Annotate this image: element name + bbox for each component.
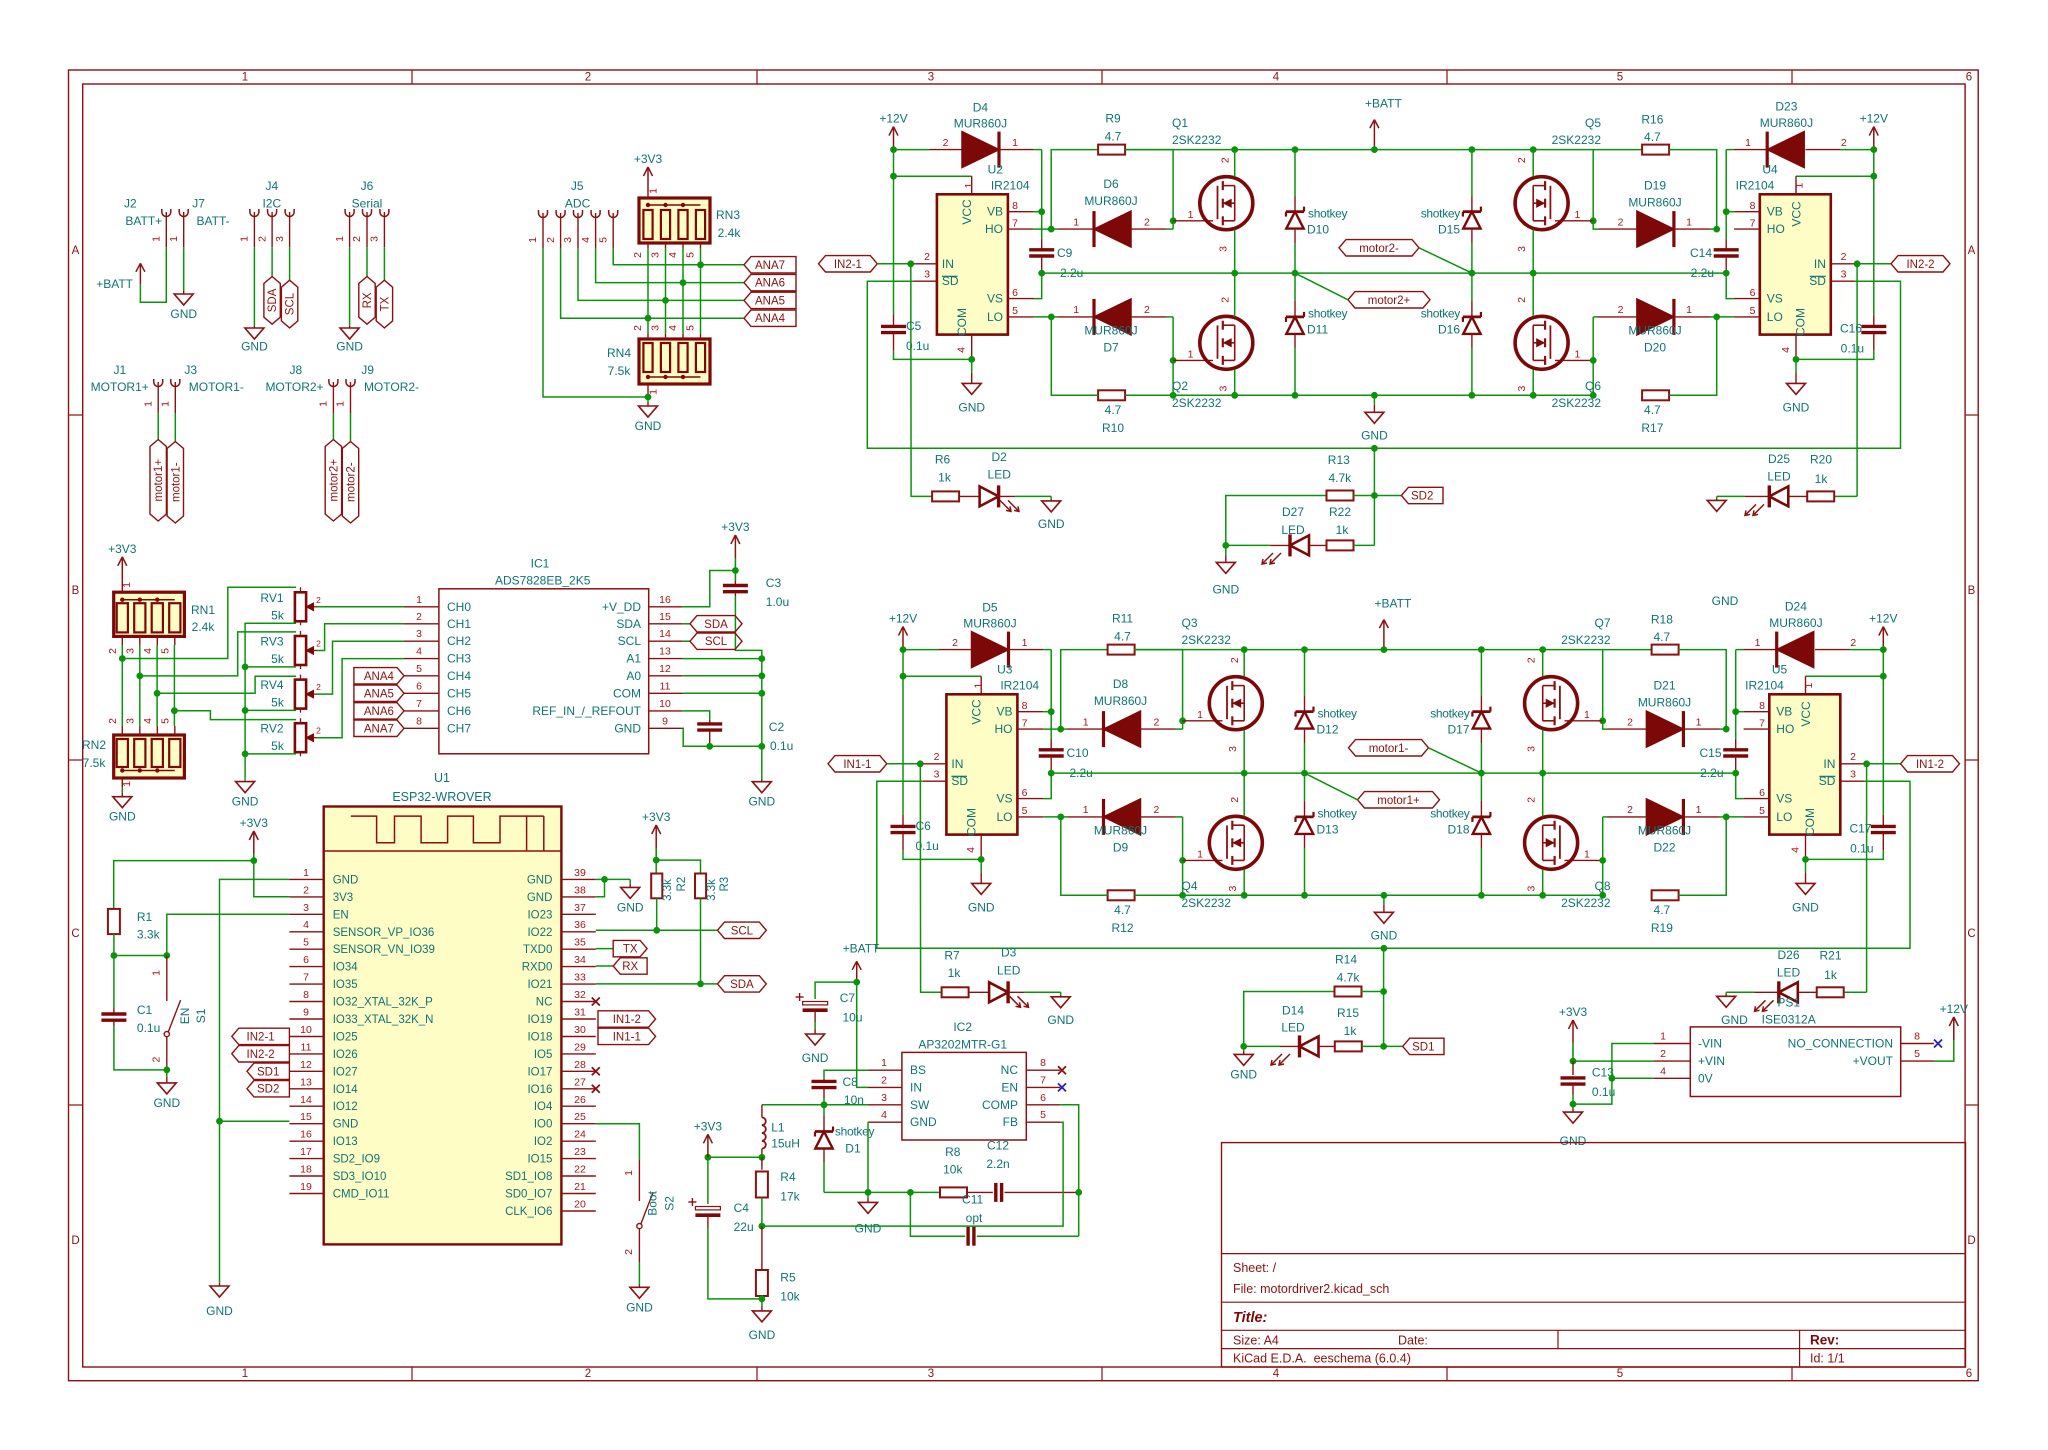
svg-text:5: 5: [1759, 805, 1765, 817]
svg-text:VB: VB: [996, 705, 1012, 719]
svg-text:R7: R7: [944, 948, 960, 962]
ground: [1717, 992, 1748, 1027]
svg-text:+12V: +12V: [889, 612, 917, 626]
svg-text:5: 5: [597, 237, 609, 243]
svg-text:17: 17: [300, 1146, 312, 1158]
wire: [1043, 711, 1051, 713]
wire: [157, 676, 296, 693]
svg-text:Title:: Title:: [1233, 1310, 1268, 1326]
no-connect x pin28: [592, 1067, 600, 1075]
svg-text:GND: GND: [749, 1328, 776, 1342]
junction: [1469, 270, 1476, 277]
wire: [1234, 230, 1236, 273]
svg-text:R22: R22: [1329, 505, 1351, 519]
wire: [1050, 650, 1052, 712]
svg-text:SD2: SD2: [1411, 491, 1433, 503]
svg-text:C2: C2: [769, 720, 785, 734]
switch S1: [151, 956, 209, 1070]
junction: [1599, 892, 1606, 899]
wire: [1134, 649, 1652, 651]
junction: [171, 707, 178, 714]
svg-text:2: 2: [632, 252, 644, 258]
wire: [254, 861, 290, 897]
label TX: [376, 280, 392, 328]
wire: [596, 983, 718, 985]
wire: [1373, 448, 1375, 545]
resistor R7: [920, 764, 968, 998]
connector J2 BATT+: [124, 197, 171, 248]
wire: [1735, 650, 1737, 712]
svg-text:TX: TX: [379, 296, 391, 311]
svg-text:J4: J4: [265, 179, 278, 193]
svg-text:GND: GND: [635, 419, 662, 433]
svg-text:+BATT: +BATT: [843, 942, 880, 956]
wire: [317, 659, 404, 738]
diode D24: [1736, 600, 1884, 668]
svg-text:3: 3: [928, 1368, 934, 1380]
wire: [1173, 394, 1593, 396]
svg-text:1: 1: [242, 72, 248, 84]
svg-text:1: 1: [303, 867, 309, 879]
svg-text:EN: EN: [1001, 1080, 1018, 1094]
label SD1: [247, 1063, 289, 1079]
svg-text:GND: GND: [1792, 900, 1819, 914]
junction: [154, 690, 161, 697]
junction: [1231, 270, 1238, 277]
ground: [1212, 545, 1239, 596]
wire: [1542, 773, 1544, 816]
svg-text:IO35: IO35: [333, 979, 358, 991]
svg-text:2: 2: [316, 595, 321, 605]
capacitor C16: [1796, 176, 1886, 359]
svg-text:2.4k: 2.4k: [718, 226, 742, 240]
junction: [1048, 314, 1055, 321]
wire: [683, 728, 762, 746]
svg-text:C7: C7: [840, 991, 856, 1005]
svg-text:Q4: Q4: [1182, 879, 1198, 893]
potentiometer RV4: [260, 675, 321, 713]
ground: [1560, 1104, 1587, 1148]
wire: [121, 645, 123, 726]
svg-text:1k: 1k: [938, 470, 952, 484]
svg-text:LO: LO: [987, 310, 1003, 324]
svg-text:18: 18: [300, 1164, 312, 1176]
resistor R12: [1108, 890, 1135, 935]
svg-text:2: 2: [316, 682, 321, 692]
capacitor C11: [910, 1192, 1078, 1245]
junction: [163, 952, 170, 959]
svg-text:14: 14: [659, 628, 671, 640]
svg-text:D3: D3: [1001, 946, 1017, 960]
junction: [1478, 892, 1485, 899]
wire: [1532, 150, 1534, 177]
svg-text:5: 5: [1040, 1109, 1046, 1121]
junction: [653, 857, 660, 864]
wire: [638, 1262, 640, 1282]
svg-text:2: 2: [1850, 751, 1856, 763]
svg-text:15: 15: [659, 611, 671, 623]
svg-text:2: 2: [316, 726, 321, 736]
transistor Q7: [1525, 616, 1611, 752]
power +BATT: [843, 942, 880, 983]
svg-text:S1: S1: [194, 1008, 208, 1023]
junction: [1478, 646, 1485, 653]
svg-text:IR2104: IR2104: [1736, 179, 1775, 193]
svg-text:2: 2: [545, 237, 557, 243]
wire: [332, 413, 334, 440]
svg-text:8: 8: [303, 989, 309, 1001]
junction: [758, 672, 765, 679]
svg-text:A: A: [72, 245, 80, 257]
diode D6: [1051, 177, 1173, 247]
svg-text:1: 1: [335, 401, 347, 407]
svg-text:IN2-2: IN2-2: [1906, 259, 1934, 271]
wire: [1384, 1045, 1403, 1047]
svg-text:12: 12: [300, 1059, 312, 1071]
transistor Q8: [1525, 797, 1611, 910]
potentiometer RV2: [260, 718, 321, 756]
svg-text:RN1: RN1: [191, 603, 215, 617]
svg-text:4.7: 4.7: [1114, 903, 1131, 917]
label SCL: [718, 922, 767, 938]
power +3V3: [108, 542, 137, 580]
svg-text:Q7: Q7: [1594, 616, 1610, 630]
switch S2 Boot: [623, 1160, 676, 1262]
svg-text:11: 11: [660, 680, 671, 692]
svg-text:D5: D5: [982, 600, 998, 614]
junction: [1057, 726, 1064, 733]
svg-text:0.1u: 0.1u: [137, 1021, 160, 1035]
svg-text:6: 6: [1966, 72, 1972, 84]
svg-text:2: 2: [1516, 157, 1528, 163]
junction: [111, 952, 118, 959]
svg-text:1: 1: [1696, 804, 1702, 816]
label IN2-1: [232, 1028, 290, 1044]
wire: [596, 948, 613, 950]
svg-text:ANA6: ANA6: [364, 706, 394, 718]
svg-text:C12: C12: [987, 1139, 1009, 1153]
svg-text:SD2_IO9: SD2_IO9: [333, 1154, 380, 1166]
wire: [1592, 317, 1594, 395]
svg-text:IO34: IO34: [333, 962, 359, 974]
svg-text:3.3k: 3.3k: [137, 927, 161, 941]
junction: [1292, 146, 1299, 153]
junction: [1793, 356, 1800, 363]
svg-text:6: 6: [303, 954, 309, 966]
wire: [1717, 316, 1734, 318]
connector J7 BATT-: [168, 197, 230, 248]
svg-text:1: 1: [1574, 209, 1580, 221]
svg-text:C8: C8: [843, 1075, 859, 1089]
no-connect x IC2 pin7: [1058, 1083, 1066, 1091]
junction: [163, 1067, 170, 1074]
label ANA4: [744, 310, 796, 326]
svg-text:GND: GND: [206, 1304, 233, 1318]
svg-text:39: 39: [574, 867, 586, 879]
svg-text:IN: IN: [942, 257, 954, 271]
wire: [877, 781, 1910, 948]
svg-text:ANA5: ANA5: [755, 295, 785, 307]
svg-text:4: 4: [1273, 1368, 1280, 1380]
wire: [1051, 150, 1098, 230]
svg-text:IO26: IO26: [333, 1049, 358, 1061]
wire: [1234, 273, 1236, 316]
svg-text:3: 3: [924, 269, 930, 281]
svg-text:16: 16: [300, 1129, 312, 1141]
wire: [183, 247, 185, 286]
wire: [605, 878, 631, 880]
wire: [1866, 764, 1868, 993]
svg-text:R2: R2: [676, 877, 688, 892]
wire: [1034, 211, 1042, 213]
svg-text:1k: 1k: [948, 966, 962, 980]
svg-text:1k: 1k: [1824, 968, 1838, 982]
svg-text:VB: VB: [1767, 205, 1783, 219]
svg-text:4: 4: [1273, 72, 1280, 84]
svg-text:VB: VB: [987, 205, 1003, 219]
wire: [596, 1124, 640, 1160]
capacitor C6: [891, 676, 982, 859]
wire: [877, 263, 913, 265]
svg-text:HO: HO: [985, 222, 1003, 236]
power +12V: [879, 112, 907, 150]
svg-text:6: 6: [1966, 1368, 1972, 1380]
svg-text:HO: HO: [1776, 722, 1794, 736]
wire: [1061, 650, 1108, 730]
capacitor C5: [881, 176, 972, 359]
no-connect x pin27: [592, 1085, 600, 1093]
diode D15 shotkey: [1463, 150, 1481, 274]
svg-text:IO22: IO22: [527, 927, 552, 939]
ground: [855, 1192, 882, 1235]
svg-text:ESP32-WROVER: ESP32-WROVER: [392, 790, 491, 804]
svg-text:CMD_IO11: CMD_IO11: [333, 1189, 390, 1201]
svg-text:4.7: 4.7: [1654, 903, 1671, 917]
svg-text:I2C: I2C: [262, 197, 281, 211]
svg-text:1k: 1k: [1344, 1024, 1358, 1038]
diode D19: [1593, 179, 1717, 247]
svg-text:Date:: Date:: [1398, 1334, 1428, 1348]
svg-text:2: 2: [632, 325, 644, 331]
wire: [1573, 1044, 1654, 1105]
svg-text:D: D: [71, 1235, 79, 1247]
svg-text:IN1-2: IN1-2: [613, 1014, 641, 1026]
capacitor C1: [101, 956, 160, 1036]
diode D1 shotkey: [815, 1105, 874, 1193]
ground: [1230, 1046, 1257, 1081]
U1 right pins: [505, 867, 596, 1218]
svg-text:1: 1: [1083, 804, 1089, 816]
power +3V3: [634, 152, 663, 190]
diode D20: [1593, 299, 1717, 355]
svg-text:5: 5: [416, 663, 422, 675]
ground: [241, 323, 268, 354]
junction: [705, 1154, 712, 1161]
wire: [887, 763, 923, 765]
svg-text:shotkey: shotkey: [1308, 307, 1348, 321]
svg-text:SD1_IO8: SD1_IO8: [505, 1171, 552, 1183]
svg-text:4.7: 4.7: [1644, 403, 1661, 417]
svg-text:C15: C15: [1699, 746, 1721, 760]
svg-text:9: 9: [662, 715, 668, 727]
svg-text:RN2: RN2: [82, 738, 106, 752]
svg-text:GND: GND: [1361, 428, 1388, 442]
junction: [653, 927, 660, 934]
resistor R21: [1817, 948, 1867, 997]
ground: [206, 1279, 233, 1318]
svg-text:C14: C14: [1690, 246, 1712, 260]
diode D5: [903, 600, 1051, 667]
wire: [383, 247, 385, 280]
label ANA6: [744, 274, 796, 290]
svg-text:GND: GND: [1047, 1013, 1074, 1027]
svg-text:CLK_IO6: CLK_IO6: [505, 1206, 552, 1218]
junction: [1880, 673, 1887, 680]
svg-text:5: 5: [159, 718, 171, 724]
svg-text:C4: C4: [734, 1201, 750, 1215]
svg-text:1: 1: [1696, 716, 1702, 728]
label IN2-2: [232, 1046, 290, 1062]
svg-text:1: 1: [1745, 137, 1751, 149]
svg-text:4: 4: [580, 237, 592, 243]
svg-text:5: 5: [1617, 72, 1623, 84]
svg-text:SCL: SCL: [705, 636, 728, 648]
junction: [1802, 856, 1809, 863]
svg-text:COMP: COMP: [982, 1098, 1018, 1112]
label SDA: [683, 616, 742, 632]
wire: [683, 658, 762, 660]
svg-text:2: 2: [1841, 251, 1847, 263]
wire: [761, 1198, 763, 1227]
junction: [1170, 217, 1177, 224]
junction: [1713, 314, 1720, 321]
wire: [700, 248, 702, 334]
label RX: [613, 958, 647, 974]
ground: [232, 780, 259, 809]
svg-text:IN2-1: IN2-1: [834, 259, 862, 271]
svg-text:6: 6: [416, 680, 422, 692]
label ANA5: [744, 292, 796, 308]
junction: [1231, 146, 1238, 153]
svg-text:HO: HO: [995, 722, 1013, 736]
svg-text:2: 2: [303, 884, 309, 896]
power +3V3: [240, 816, 269, 861]
svg-text:0V: 0V: [1698, 1071, 1713, 1085]
junction: [1170, 357, 1177, 364]
svg-text:SENSOR_VP_IO36: SENSOR_VP_IO36: [333, 927, 435, 939]
label ANA7: [354, 720, 404, 736]
svg-text:IN2-2: IN2-2: [247, 1049, 275, 1061]
svg-text:R5: R5: [780, 1271, 796, 1285]
svg-text:14: 14: [300, 1094, 312, 1106]
svg-text:10: 10: [300, 1024, 312, 1036]
svg-text:VS: VS: [987, 292, 1003, 306]
resistor R8: [910, 1145, 967, 1197]
svg-text:RV3: RV3: [260, 635, 283, 649]
diode D25 LED: [1717, 452, 1808, 515]
svg-text:0.1u: 0.1u: [906, 339, 929, 353]
svg-text:IO33_XTAL_32K_N: IO33_XTAL_32K_N: [333, 1014, 434, 1026]
svg-text:MUR860J: MUR860J: [1769, 616, 1822, 630]
svg-text:10k: 10k: [780, 1289, 800, 1303]
svg-text:7: 7: [1022, 717, 1028, 729]
svg-text:MUR860J: MUR860J: [1628, 195, 1681, 209]
svg-text:2: 2: [1220, 297, 1232, 303]
wire: [114, 861, 254, 909]
IC U5 IR2104: [1744, 663, 1865, 860]
svg-text:RV1: RV1: [260, 591, 283, 605]
capacitor C3: [723, 571, 789, 610]
svg-text:IO17: IO17: [527, 1066, 552, 1078]
svg-text:R10: R10: [1102, 421, 1124, 435]
junction: [645, 394, 652, 401]
diode D26 LED: [1726, 948, 1817, 1011]
svg-text:30: 30: [574, 1024, 586, 1036]
svg-text:+3V3: +3V3: [240, 816, 269, 830]
svg-text:4.7: 4.7: [1114, 630, 1131, 644]
svg-text:2: 2: [623, 1249, 635, 1255]
svg-text:3: 3: [1218, 386, 1230, 392]
junction: [1241, 770, 1248, 777]
svg-text:8: 8: [416, 715, 422, 727]
resistor R2: [651, 860, 688, 901]
svg-text:2.2n: 2.2n: [986, 1157, 1009, 1171]
svg-text:GND: GND: [527, 892, 553, 904]
svg-text:2: 2: [107, 648, 119, 654]
wire: [1243, 869, 1245, 895]
power +BATT: [1375, 597, 1412, 650]
junction: [250, 857, 257, 864]
transistor Q5: [1515, 116, 1601, 252]
svg-text:RX: RX: [622, 961, 638, 973]
power +BATT: [1365, 97, 1402, 150]
svg-text:LED: LED: [1777, 965, 1801, 979]
svg-text:1: 1: [648, 188, 660, 194]
svg-text:1: 1: [1574, 349, 1580, 361]
wire: [1125, 149, 1643, 151]
svg-text:1: 1: [151, 236, 163, 242]
svg-text:+BATT: +BATT: [1365, 97, 1402, 111]
label SCL: [281, 280, 297, 328]
svg-text:IO14: IO14: [333, 1084, 359, 1096]
svg-text:SCL: SCL: [618, 634, 642, 648]
svg-text:13: 13: [659, 646, 671, 658]
svg-text:4: 4: [142, 648, 154, 654]
svg-text:16: 16: [659, 594, 671, 606]
svg-text:LED: LED: [1281, 1020, 1305, 1034]
svg-text:0.1u: 0.1u: [770, 739, 793, 753]
junction: [1599, 717, 1606, 724]
svg-text:1: 1: [160, 401, 172, 407]
svg-text:D15: D15: [1438, 223, 1460, 237]
svg-text:3: 3: [124, 718, 136, 724]
svg-text:+3V3: +3V3: [108, 542, 137, 556]
power +12V: [1860, 112, 1888, 150]
svg-text:0.1u: 0.1u: [916, 839, 939, 853]
IC PS1 ISE0312A: [1654, 996, 1934, 1097]
diode D9: [1061, 799, 1183, 855]
wire: [113, 934, 115, 955]
svg-text:26: 26: [574, 1094, 586, 1106]
svg-text:Size: A4: Size: A4: [1233, 1334, 1279, 1348]
svg-text:2SK2232: 2SK2232: [1561, 633, 1611, 647]
IC U1 ESP32-WROVER: [324, 771, 562, 1244]
svg-text:COM: COM: [955, 308, 969, 336]
ground: [170, 286, 197, 321]
svg-text:+12V: +12V: [1940, 1002, 1968, 1016]
svg-text:C: C: [1967, 928, 1975, 940]
ground: [109, 788, 136, 824]
